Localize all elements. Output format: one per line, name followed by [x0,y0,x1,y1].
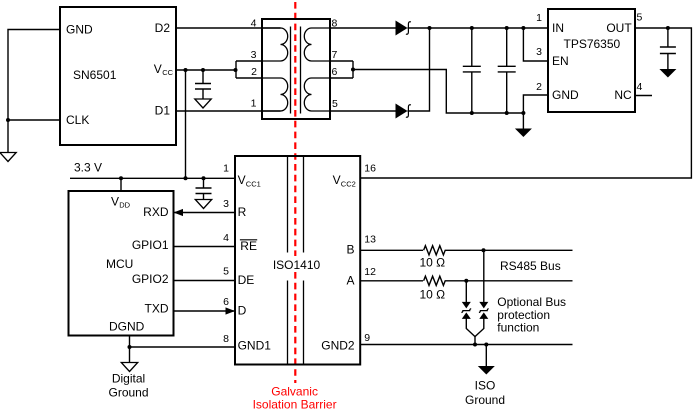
svg-text:MCU: MCU [106,257,133,271]
svg-text:8: 8 [223,333,229,345]
svg-text:Galvanic: Galvanic [271,384,318,398]
svg-text:2: 2 [536,81,542,93]
svg-text:DE: DE [238,273,255,287]
svg-text:3: 3 [251,49,257,61]
svg-text:CC: CC [162,68,173,77]
svg-text:2: 2 [251,66,257,78]
svg-text:Digital: Digital [112,372,145,386]
svg-text:10 Ω: 10 Ω [419,287,445,301]
svg-text:4: 4 [637,81,643,93]
svg-text:Isolation Barrier: Isolation Barrier [253,398,337,412]
svg-text:V: V [238,173,246,187]
svg-text:10 Ω: 10 Ω [419,256,445,270]
svg-text:16: 16 [364,163,376,175]
svg-text:CC2: CC2 [341,179,356,188]
svg-text:3: 3 [223,198,229,210]
svg-text:RE: RE [240,239,257,253]
svg-text:SN6501: SN6501 [73,68,117,82]
svg-text:V: V [333,173,341,187]
svg-text:D1: D1 [155,104,171,118]
svg-text:OUT: OUT [606,21,632,35]
svg-text:1: 1 [251,98,257,110]
svg-text:Ground: Ground [108,386,148,400]
svg-text:D2: D2 [155,21,171,35]
svg-text:DGND: DGND [109,319,145,333]
svg-text:GND: GND [66,22,93,36]
svg-text:D: D [238,304,247,318]
svg-text:6: 6 [223,296,229,308]
svg-text:7: 7 [332,49,338,61]
svg-text:ISO1410: ISO1410 [273,258,321,272]
svg-text:GPIO1: GPIO1 [132,238,169,252]
svg-text:Ground: Ground [465,393,505,407]
svg-text:CLK: CLK [66,113,89,127]
svg-text:V: V [111,194,119,208]
svg-text:5: 5 [223,266,229,278]
svg-text:R: R [238,205,247,219]
svg-text:CC1: CC1 [246,179,261,188]
svg-text:TPS76350: TPS76350 [564,37,621,51]
svg-text:GND: GND [552,88,579,102]
svg-text:function: function [497,321,539,335]
svg-text:5: 5 [637,12,643,24]
svg-text:8: 8 [332,18,338,30]
svg-text:NC: NC [614,88,632,102]
svg-text:1: 1 [536,12,542,24]
svg-text:9: 9 [364,332,370,344]
svg-text:4: 4 [251,18,257,30]
svg-text:6: 6 [332,66,338,78]
svg-text:GND1: GND1 [238,338,272,352]
svg-text:A: A [346,274,354,288]
svg-text:DD: DD [119,201,130,210]
svg-text:RXD: RXD [143,205,169,219]
svg-text:B: B [346,243,354,257]
svg-text:13: 13 [364,234,376,246]
svg-text:ISO: ISO [475,379,496,393]
svg-text:GPIO2: GPIO2 [132,272,169,286]
svg-text:5: 5 [332,98,338,110]
svg-text:3.3 V: 3.3 V [74,161,102,175]
svg-text:GND2: GND2 [321,338,355,352]
svg-text:EN: EN [552,54,569,68]
svg-text:12: 12 [364,266,376,278]
svg-text:TXD: TXD [145,302,169,316]
svg-text:1: 1 [223,162,229,174]
svg-text:RS485 Bus: RS485 Bus [500,259,561,273]
svg-text:IN: IN [552,21,564,35]
svg-text:4: 4 [223,232,229,244]
svg-text:3: 3 [536,46,542,58]
svg-text:V: V [154,62,162,76]
